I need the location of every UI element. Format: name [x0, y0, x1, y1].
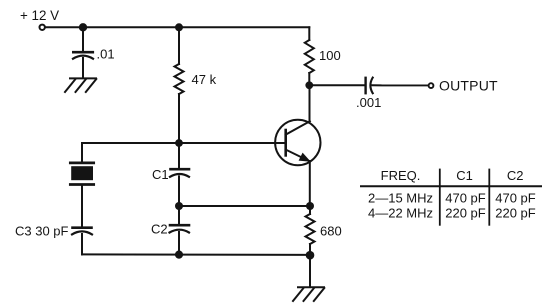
svg-text:.001: .001 — [356, 95, 381, 110]
capacitor C3 30 pF — [15, 223, 92, 254]
node junction emitter / 680 top — [306, 202, 314, 210]
wire top supply rail — [46, 26, 310, 28]
node junction at bypass cap — [79, 23, 87, 31]
resistor 680 — [306, 206, 342, 255]
svg-text:2—15 MHz: 2—15 MHz — [368, 190, 433, 205]
svg-text:47 k: 47 k — [192, 72, 217, 87]
svg-text:C2: C2 — [507, 168, 524, 183]
svg-text:100: 100 — [319, 48, 341, 63]
wire bottom rail — [82, 253, 310, 256]
capacitor .001 coupling — [356, 78, 428, 110]
svg-text:C1: C1 — [152, 167, 169, 182]
node junction base / C1 top — [175, 139, 183, 147]
svg-text:470 pF: 470 pF — [495, 190, 536, 205]
node junction C1/C2 — [175, 202, 183, 210]
+12V supply terminal — [20, 8, 59, 30]
capacitor C2 — [151, 206, 189, 255]
svg-text:470 pF: 470 pF — [445, 190, 486, 205]
svg-text:680: 680 — [320, 223, 342, 238]
svg-text:220 pF: 220 pF — [445, 205, 486, 220]
wire emitter node horizontal — [179, 205, 310, 207]
svg-text:FREQ.: FREQ. — [381, 168, 421, 183]
svg-text:OUTPUT: OUTPUT — [439, 78, 498, 94]
resistor 47 k — [175, 27, 217, 143]
capacitor .01 bypass — [73, 27, 115, 78]
node junction at 47k top — [175, 23, 183, 31]
wire to ground — [309, 255, 311, 287]
capacitor C1 — [152, 143, 189, 206]
svg-text:C2: C2 — [151, 221, 168, 236]
svg-text:220 pF: 220 pF — [495, 205, 536, 220]
crystal Y1 — [70, 143, 93, 227]
ground (bypass cap) — [65, 78, 96, 92]
node junction 680 bottom — [306, 251, 315, 260]
node junction C2 bottom — [175, 251, 183, 259]
svg-text:+ 12 V: + 12 V — [20, 8, 59, 23]
output terminal — [429, 78, 498, 94]
svg-text:C1: C1 — [456, 168, 473, 183]
node junction collector/output — [305, 81, 313, 89]
svg-text:.01: .01 — [97, 47, 115, 62]
svg-text:C3 30 pF: C3 30 pF — [15, 223, 69, 238]
component value table — [361, 168, 541, 225]
wire base node horizontal — [82, 142, 286, 144]
ground (emitter resistor) — [293, 287, 324, 301]
transistor Q1 — [275, 85, 320, 206]
wire output node — [309, 84, 364, 86]
resistor 100 — [305, 27, 341, 85]
svg-text:4—22 MHz: 4—22 MHz — [368, 205, 433, 220]
